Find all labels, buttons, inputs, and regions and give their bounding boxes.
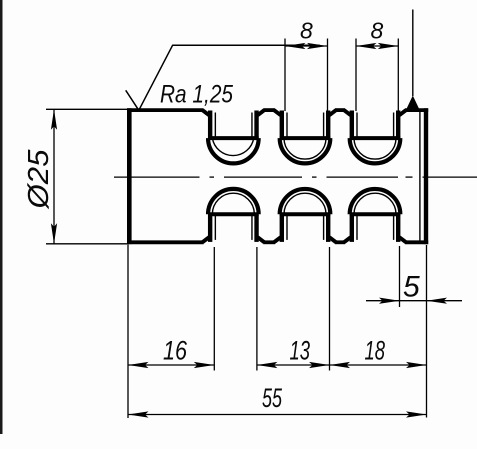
dimension 8 (second): extension lines	[355, 39, 357, 112]
svg-text:5: 5	[403, 271, 420, 304]
groove 2 bottom: walls	[280, 214, 284, 242]
groove 3 top: inner thin arc	[354, 138, 396, 159]
groove 2 bottom: inner thin arc	[284, 193, 326, 214]
dimension 8 (second): dimension line	[356, 45, 398, 47]
dimension 5: extension lines	[399, 246, 401, 307]
dimension 5: arrows (outside, pointing inward)	[379, 298, 400, 304]
groove 3 bottom: outer arc	[350, 189, 401, 214]
dimension 16: dimension line	[128, 364, 214, 366]
groove 3 bottom: chamfer bevels	[344, 237, 406, 242]
groove 3 bottom: inner thin arc	[354, 193, 396, 214]
groove 2 top: walls	[280, 111, 284, 141]
thread-end marker triangle	[406, 96, 420, 110]
svg-text:18: 18	[365, 336, 386, 366]
dimension 55: arrows	[128, 411, 149, 417]
part outline: left face	[127, 108, 132, 244]
groove 1 top: chamfer bevels	[203, 110, 265, 115]
groove 2 top: outer arc	[280, 138, 331, 163]
dimension Ø25: extension lines	[46, 108, 127, 110]
dimension 8 (second): arrows	[356, 43, 377, 49]
svg-text:Ø25: Ø25	[23, 149, 55, 210]
groove 1 top: walls	[208, 111, 212, 141]
svg-text:8: 8	[371, 18, 384, 44]
part outline: right face	[424, 108, 428, 244]
groove 2 top: chamfer bevels	[274, 110, 336, 115]
dimension 18: arrows	[330, 362, 351, 368]
part outline: top surface segments	[127, 108, 428, 112]
svg-text:8: 8	[300, 18, 313, 44]
thread-end marker leader line	[412, 10, 414, 97]
groove 2 bottom: shoulder line	[280, 212, 331, 216]
groove 3 bottom: thin wall lines	[356, 215, 358, 240]
groove 1 top: shoulder line	[208, 136, 259, 140]
drawing frame left border	[0, 0, 3, 434]
groove 1 top: outer arc	[208, 138, 259, 163]
groove 3 bottom: shoulder line	[350, 212, 401, 216]
groove 2 top: shoulder line	[280, 136, 331, 140]
svg-text:13: 13	[290, 336, 311, 366]
groove 1 bottom: thin wall lines	[214, 215, 216, 240]
dimension 13: extension lines	[256, 247, 258, 371]
dimension 55: dimension line	[128, 414, 427, 416]
groove 2 bottom: chamfer bevels	[274, 237, 336, 242]
part outline: bottom surface segments	[127, 240, 428, 244]
groove 2 top: inner thin arc	[284, 138, 326, 159]
groove 1 top: inner thin arc	[212, 138, 253, 155]
groove 1 top: thin wall lines	[214, 113, 216, 138]
groove 2 bottom: outer arc	[280, 189, 331, 214]
groove 1 bottom: chamfer bevels	[203, 237, 265, 242]
dimension Ø25: dimension line	[53, 109, 55, 244]
dimension 8 (first): dimension line	[285, 45, 328, 47]
svg-text:Ra 1,25: Ra 1,25	[160, 81, 233, 109]
groove 1 bottom: inner thin arc	[212, 193, 254, 214]
groove 3 bottom: walls	[350, 214, 354, 242]
groove 3 top: thin wall lines	[356, 113, 358, 138]
dimension 13: dimension line	[257, 364, 330, 366]
svg-text:16: 16	[163, 336, 188, 366]
centerline (axis)	[114, 176, 477, 178]
dimension 5: dimension line	[366, 300, 462, 302]
groove 2 top: thin wall lines	[286, 113, 288, 138]
right face chamfer thin line	[419, 112, 421, 241]
groove 3 top: chamfer bevels	[344, 110, 406, 115]
groove 1 bottom: walls	[208, 214, 212, 242]
groove 3 top: walls	[350, 111, 354, 141]
groove 3 top: outer arc	[350, 138, 401, 163]
surface finish mark (check)	[126, 45, 320, 111]
dimension 13: arrows	[257, 362, 278, 368]
groove 1 bottom: outer arc	[208, 189, 259, 214]
dimension 16: extension lines	[127, 245, 129, 419]
dimension 16: arrows	[128, 362, 149, 368]
dimension 8 (first): extension lines	[284, 39, 286, 112]
groove 1 bottom: shoulder line	[208, 212, 259, 216]
dimension Ø25: arrows	[51, 109, 57, 130]
dimension 8 (first): arrows	[285, 43, 306, 49]
groove 2 bottom: thin wall lines	[286, 215, 288, 240]
svg-text:55: 55	[262, 383, 283, 413]
groove 3 top: shoulder line	[350, 136, 401, 140]
dimension 18: dimension line	[330, 364, 427, 366]
